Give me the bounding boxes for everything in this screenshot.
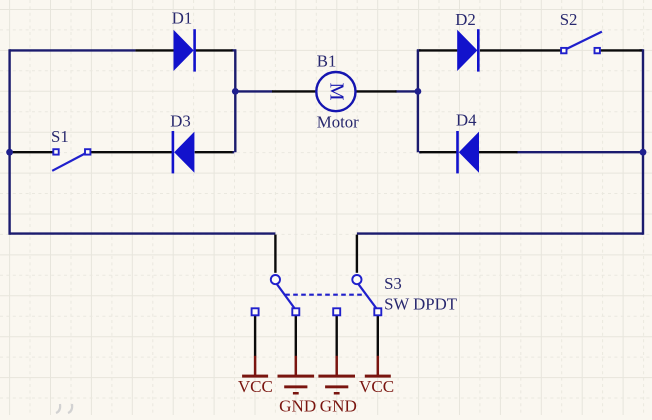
svg-text:S1: S1 [51,127,69,146]
svg-text:S3: S3 [384,274,402,293]
svg-text:D1: D1 [172,9,193,28]
svg-text:D3: D3 [170,112,191,131]
svg-text:VCC: VCC [359,377,394,396]
svg-text:M: M [326,83,348,101]
svg-text:SW DPDT: SW DPDT [384,295,457,314]
svg-text:GND: GND [279,397,316,415]
svg-text:VCC: VCC [238,377,273,396]
svg-text:Motor: Motor [317,113,359,132]
svg-text:GND: GND [320,397,357,415]
svg-text:B1: B1 [317,51,337,70]
svg-text:S2: S2 [560,10,578,29]
svg-text:D4: D4 [456,111,477,130]
svg-text:D2: D2 [455,10,476,29]
